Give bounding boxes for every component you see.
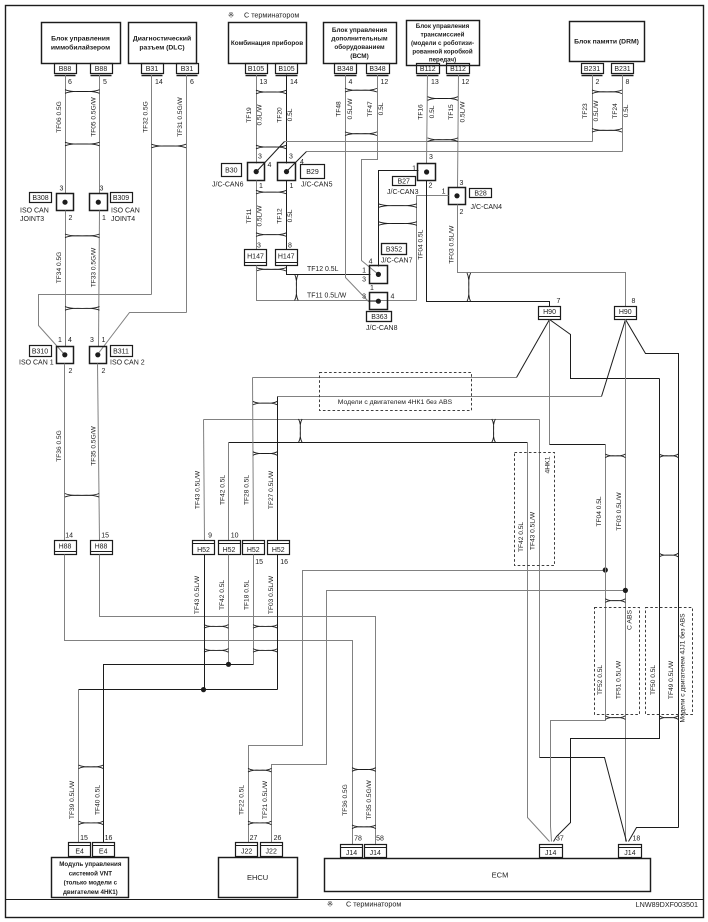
svg-text:37: 37 [556, 836, 564, 843]
svg-text:9: 9 [208, 533, 212, 540]
twist mark TF16/TF15 upper [428, 97, 459, 101]
twist mark TF36/TF35 [65, 494, 99, 498]
connector B231 pin8 [612, 64, 634, 74]
wire junction line y664 to E4 pin16 [104, 665, 254, 843]
svg-text:4: 4 [268, 162, 272, 169]
svg-text:※: ※ [228, 11, 234, 20]
svg-text:8: 8 [626, 79, 630, 86]
svg-text:16: 16 [280, 559, 288, 566]
svg-text:(только модели с: (только модели с [64, 880, 118, 887]
label box B363 [367, 312, 392, 322]
svg-text:12: 12 [381, 79, 389, 86]
twist mark TF39/TF40 lower [79, 821, 104, 825]
svg-text:TF11 0.5L/W: TF11 0.5L/W [307, 293, 347, 300]
svg-text:B308: B308 [32, 195, 48, 202]
connector J14 pin78 [341, 845, 363, 858]
wire TF34 0.5G [65, 211, 67, 347]
wire TF03 0.5L/W below H52 [277, 555, 279, 690]
connector H52 pin15 [243, 541, 265, 555]
svg-text:TF06 0.5G: TF06 0.5G [56, 101, 63, 133]
svg-text:0.5L: 0.5L [429, 105, 436, 118]
label box B308 [30, 193, 52, 203]
block: Комбинация приборов [229, 23, 307, 64]
svg-text:TF43 0.5L/W: TF43 0.5L/W [195, 470, 202, 509]
svg-text:3: 3 [257, 243, 261, 250]
svg-text:Блок управления: Блок управления [416, 23, 470, 30]
svg-text:3: 3 [289, 154, 293, 161]
wire TF43 0.5L/W below H52 [204, 555, 206, 690]
svg-text:1: 1 [290, 183, 294, 190]
wire TF04 0.5L upper [427, 181, 550, 307]
junction dot TF03 at y590 [623, 588, 628, 593]
wire TF27 bus line [278, 396, 602, 398]
svg-text:иммобилайзером: иммобилайзером [51, 44, 110, 52]
svg-text:TF16: TF16 [418, 104, 425, 120]
svg-text:27: 27 [250, 835, 258, 842]
wire H90-2 diagonal to TF27 line [602, 320, 626, 397]
wire DLC1 to ISO CAN1 joint [39, 295, 152, 355]
twist mark TF34/TF33 upper [65, 234, 100, 238]
svg-text:15: 15 [255, 559, 263, 566]
wire from H88 right to ECM J14 pin58 [100, 555, 376, 845]
twist mark TF23/TF24 lower [592, 129, 622, 133]
svg-text:7: 7 [557, 298, 561, 305]
svg-text:TF40 0.5L: TF40 0.5L [95, 785, 102, 815]
svg-text:(ВСМ): (ВСМ) [350, 53, 368, 60]
connector J14 pin37 [540, 845, 563, 858]
svg-text:1: 1 [442, 189, 446, 196]
svg-text:TF27 0.5L/W: TF27 0.5L/W [268, 470, 275, 509]
svg-text:0.5L/W: 0.5L/W [347, 98, 354, 120]
wire TF18 0.5L [253, 555, 255, 665]
svg-text:0.5L: 0.5L [287, 108, 294, 121]
connector B31 pin6 [177, 64, 199, 74]
joint B310 ISO CAN 1 [57, 347, 74, 364]
svg-text:B309: B309 [113, 195, 129, 202]
svg-text:TF12: TF12 [277, 208, 284, 224]
svg-text:H147: H147 [247, 254, 264, 261]
svg-text:B310: B310 [32, 348, 48, 355]
twist mark TF43/TF42 below upper [204, 625, 229, 629]
svg-text:4: 4 [68, 337, 72, 344]
svg-text:15: 15 [101, 533, 109, 540]
svg-text:TF05 0.5G/W: TF05 0.5G/W [91, 96, 98, 136]
svg-text:J/C-CAN3: J/C-CAN3 [387, 189, 419, 196]
wire TF28 bus line [253, 377, 517, 379]
twist mark TF43/TF42 bus right [492, 419, 496, 442]
svg-text:С терминатором: С терминатором [244, 11, 299, 20]
svg-text:С терминатором: С терминатором [346, 900, 401, 909]
svg-text:J14: J14 [545, 850, 556, 857]
svg-text:0.5L: 0.5L [623, 104, 630, 117]
wire B27 pin1 to B352 [379, 171, 419, 267]
svg-text:H90: H90 [619, 309, 632, 316]
svg-text:2: 2 [69, 215, 73, 222]
svg-text:H88: H88 [95, 544, 108, 551]
svg-text:2: 2 [69, 368, 73, 375]
svg-text:J/C-CAN4: J/C-CAN4 [471, 204, 503, 211]
svg-text:B88: B88 [95, 66, 108, 73]
svg-text:TF03 0.5L/W: TF03 0.5L/W [449, 225, 456, 264]
svg-text:3: 3 [362, 294, 366, 301]
connector H90 pin7 [539, 307, 561, 320]
wire TF39 0.5L/W vertical to E4 pin15 [78, 690, 80, 843]
svg-text:5: 5 [103, 79, 107, 86]
svg-text:2: 2 [102, 368, 106, 375]
wire TF43 0.5L/W drop vertical [539, 420, 541, 758]
svg-text:Блок памяти (DRM): Блок памяти (DRM) [574, 38, 639, 45]
connector B31 pin14 [142, 64, 164, 74]
svg-text:10: 10 [231, 533, 239, 540]
svg-text:TF42 0.5L: TF42 0.5L [220, 475, 227, 505]
connector B105 pin13 [246, 64, 268, 74]
twist mark TF43/TF42 below lower [204, 649, 229, 653]
svg-text:EHCU: EHCU [247, 873, 268, 882]
wire H90-1 diagonal to TF28 line [517, 320, 550, 378]
junction dot TF43 at y689 [201, 687, 206, 692]
joint B363 J/C-CAN8 [370, 293, 388, 310]
svg-text:4: 4 [349, 79, 353, 86]
svg-text:TF51 0.5L/W: TF51 0.5L/W [616, 660, 623, 699]
connector E4 pin15 [69, 843, 91, 857]
svg-text:H88: H88 [59, 544, 72, 551]
svg-text:Диагностический: Диагностический [133, 34, 191, 42]
label box B352 [382, 244, 407, 255]
svg-text:0.5L/W: 0.5L/W [257, 205, 264, 227]
connector B112 pin12 [447, 64, 470, 74]
svg-text:H52: H52 [247, 547, 260, 554]
wire TF06 0.5G [65, 75, 67, 194]
twist mark TF11/TF12 upper [256, 190, 287, 194]
wire TF11 0.5L/W lower [257, 266, 417, 301]
svg-text:ISO CAN 1: ISO CAN 1 [19, 360, 54, 367]
twist mark TF36/TF35 lower upper [352, 768, 376, 772]
wire H90-2 diagonal to TF49 [626, 320, 679, 828]
twist mark DLC pair [152, 144, 187, 148]
twist mark TF52/TF51 below box [605, 716, 625, 720]
joint B27 J/C-CAN3 [418, 164, 436, 181]
svg-text:двигателем 4НК1): двигателем 4НК1) [63, 889, 118, 896]
twist mark immobilizer pair lower [65, 142, 100, 146]
svg-text:J/C-CAN5: J/C-CAN5 [301, 182, 333, 189]
dashed box 4HK1 [515, 453, 555, 566]
twist mark TF50/TF49 mid [659, 553, 678, 557]
wire TF35 0.5G/W upper [98, 364, 100, 541]
twist mark TF04/TF03 lower mid [605, 599, 625, 603]
connector B88 pin5 [91, 64, 113, 74]
svg-text:4HK1: 4HK1 [545, 456, 552, 473]
svg-text:Блок управления: Блок управления [51, 35, 110, 42]
connector J14 pin58 [365, 845, 387, 858]
svg-text:TF22 0.5L: TF22 0.5L [239, 785, 246, 815]
svg-text:ISO CAN 2: ISO CAN 2 [110, 360, 145, 367]
svg-text:трансмиссией: трансмиссией [421, 32, 465, 39]
twist mark TF36/TF35 lower lower [352, 825, 376, 829]
svg-text:J14: J14 [346, 850, 357, 857]
junction dot TF04 at y570 [603, 567, 608, 572]
svg-text:3: 3 [258, 154, 262, 161]
label box B30 [222, 164, 242, 177]
wire H90-1 diagonal to TF50 line [550, 320, 660, 379]
svg-text:0.5L/W: 0.5L/W [593, 100, 600, 122]
joint B30 J/C-CAN6 [248, 163, 265, 181]
twist mark TF19/TF20 lower [256, 145, 287, 149]
svg-text:TF18 0.5L: TF18 0.5L [244, 580, 251, 610]
svg-text:B231: B231 [614, 66, 630, 73]
svg-text:B363: B363 [371, 314, 387, 321]
wire TF47 0.5L [362, 75, 379, 275]
wire from H88 left to ECM J14 pin78 [65, 555, 353, 845]
wire TF21 0.5L/W [272, 591, 626, 843]
svg-text:1: 1 [362, 268, 366, 275]
wire TF42 bus line [229, 442, 528, 444]
connector J22 pin27 [236, 843, 258, 857]
wire H90-1 drop [549, 320, 551, 445]
twist mark TF18/TF03 upper [253, 625, 278, 629]
connector H147 pin3 [245, 250, 267, 266]
connector E4 pin16 [93, 843, 115, 857]
dashed box Модели с двигателем 4HK1 без ABS [320, 373, 472, 411]
svg-text:78: 78 [354, 835, 362, 842]
svg-text:JOINT3: JOINT3 [20, 216, 44, 223]
svg-text:0.5L: 0.5L [378, 102, 385, 115]
svg-text:6: 6 [68, 79, 72, 86]
dashed box 4JJ1 [646, 608, 693, 715]
wire TF27 0.5L/W above H52 [277, 397, 279, 541]
wire TF04 0.5L lower / TF52 [551, 445, 606, 842]
twist mark TF04/TF03 horizontal pair [467, 273, 471, 302]
svg-text:J22: J22 [266, 848, 277, 855]
svg-text:системой VNT: системой VNT [69, 870, 112, 877]
wire TF31 0.5G/W [186, 75, 188, 313]
svg-text:12: 12 [462, 79, 470, 86]
svg-text:TF43 0.5L/W: TF43 0.5L/W [530, 511, 537, 550]
wire B28 pin1 to B363 [417, 196, 449, 301]
svg-text:Блок управления: Блок управления [332, 27, 387, 34]
svg-text:TF32 0.5G: TF32 0.5G [143, 101, 150, 133]
twist mark TF48/TF47 upper [345, 88, 377, 92]
svg-text:TF21 0.5L/W: TF21 0.5L/W [262, 780, 269, 819]
twist mark TF11/TF12 lower [256, 233, 287, 237]
svg-text:14: 14 [155, 79, 163, 86]
svg-text:J/C-CAN8: J/C-CAN8 [366, 325, 398, 332]
svg-text:8: 8 [288, 243, 292, 250]
connector H88 pin14 [55, 541, 77, 555]
svg-text:1: 1 [370, 285, 374, 292]
svg-text:3: 3 [90, 337, 94, 344]
svg-text:3: 3 [362, 277, 366, 284]
twist mark B27/B28 joint pair lower [378, 222, 417, 226]
label box B309 [111, 193, 133, 203]
svg-text:B348: B348 [369, 66, 385, 73]
svg-text:J/C-CAN6: J/C-CAN6 [212, 182, 244, 189]
svg-text:B311: B311 [113, 348, 129, 355]
connector B112 pin13 [417, 64, 440, 74]
twist mark TF43/TF42 bus left [299, 419, 303, 442]
wire TF49 to J14 pin18 [629, 828, 679, 842]
svg-text:TF36 0.5G: TF36 0.5G [56, 430, 63, 462]
svg-text:H52: H52 [223, 547, 236, 554]
svg-text:Модели с двигателем 4НК1 без А: Модели с двигателем 4НК1 без АВS [338, 398, 453, 406]
wire TF05 0.5G/W [99, 75, 101, 194]
twist mark TF34/TF33 lower [65, 307, 100, 311]
svg-text:14: 14 [65, 533, 73, 540]
svg-text:TF28 0.5L: TF28 0.5L [244, 475, 251, 505]
svg-text:1: 1 [102, 215, 106, 222]
wire TF42 0.5L above H52 [228, 443, 230, 541]
svg-text:B88: B88 [59, 66, 72, 73]
wire TF50 drop to J14 pin37 [554, 379, 660, 842]
svg-text:J14: J14 [624, 850, 635, 857]
wire TF22 0.5L [249, 571, 606, 843]
twist mark B27/B28 joint pair upper [378, 204, 417, 208]
svg-text:0.5L/W: 0.5L/W [257, 104, 264, 126]
block: ECM [325, 859, 651, 892]
svg-text:JOINT4: JOINT4 [111, 216, 135, 223]
svg-text:оборудованием: оборудованием [334, 43, 385, 51]
svg-text:TF33 0.5G/W: TF33 0.5G/W [91, 247, 98, 287]
svg-text:LNW89DXF003501: LNW89DXF003501 [636, 900, 698, 909]
svg-text:26: 26 [274, 835, 282, 842]
svg-text:2: 2 [596, 79, 600, 86]
label box B310 [30, 346, 52, 357]
svg-text:13: 13 [260, 79, 268, 86]
svg-text:TF34 0.5G: TF34 0.5G [56, 252, 63, 284]
svg-text:J/C-CAN7: J/C-CAN7 [381, 258, 413, 265]
wire TF11 0.5L/W [256, 181, 258, 250]
svg-text:C ABS: C ABS [627, 610, 634, 630]
svg-text:TF11: TF11 [246, 208, 253, 223]
svg-text:4: 4 [391, 294, 395, 301]
twist mark TF16/TF15 lower [428, 138, 459, 142]
twist mark TF23/TF24 upper [592, 90, 622, 94]
joint B352 J/C-CAN7 [370, 266, 388, 284]
wire TF12 0.5L [286, 181, 288, 250]
svg-text:B105: B105 [248, 66, 264, 73]
svg-text:ISO CAN: ISO CAN [111, 208, 140, 215]
wire junction line y689 [79, 689, 278, 691]
svg-text:B31: B31 [181, 66, 194, 73]
joint B311 ISO CAN 2 [90, 347, 107, 364]
svg-text:TF49 0.5L/W: TF49 0.5L/W [668, 660, 675, 699]
wire TF42 0.5L below H52 [228, 555, 230, 665]
connector H90 pin8 [615, 307, 637, 320]
twist mark TF18/TF03 lower [253, 649, 278, 653]
svg-text:разъем (DLC): разъем (DLC) [139, 45, 184, 52]
dashed box C ABS [595, 608, 640, 715]
twist mark immobilizer pair upper [65, 90, 100, 94]
label box B27 [393, 177, 416, 186]
svg-text:TF03 0.5L/W: TF03 0.5L/W [268, 575, 275, 614]
svg-text:B112: B112 [420, 66, 436, 73]
svg-text:※: ※ [327, 900, 333, 909]
svg-text:B31: B31 [146, 66, 159, 73]
svg-text:TF03 0.5L/W: TF03 0.5L/W [616, 492, 623, 531]
svg-text:H147: H147 [278, 254, 295, 261]
svg-text:дополнительным: дополнительным [331, 36, 387, 43]
block: Блок памяти (DRM) [570, 22, 645, 62]
twist mark TF50/TF49 upper [659, 454, 678, 458]
wire DRM CAN-H bus line [307, 151, 623, 153]
wire DLC2 to ISO CAN2 joint [98, 313, 187, 355]
svg-text:B352: B352 [386, 247, 402, 254]
svg-text:передач): передач) [429, 57, 456, 64]
block: Блок управления дополнительным оборудованием (BCM) [324, 23, 397, 64]
wire TF43 0.5L/W drop to J14 pin18 [540, 758, 627, 842]
svg-text:TF12 0.5L: TF12 0.5L [307, 266, 339, 273]
wire TF15 0.5L/W [458, 75, 459, 188]
svg-text:TF48: TF48 [336, 101, 343, 117]
connector H147 pin8 [276, 250, 298, 266]
svg-text:TF23: TF23 [582, 103, 589, 119]
connector H52 pin10 [219, 541, 241, 555]
svg-text:TF35 0.5G/W: TF35 0.5G/W [366, 779, 373, 819]
svg-text:ECM: ECM [492, 871, 509, 880]
svg-text:1: 1 [58, 337, 62, 344]
twist mark TF19/TF20 upper [256, 90, 287, 94]
svg-text:J14: J14 [370, 850, 381, 857]
svg-text:TF42 0.5L: TF42 0.5L [219, 580, 226, 610]
svg-text:J22: J22 [241, 848, 252, 855]
junction dot TF42 at y664 [226, 662, 231, 667]
svg-text:B348: B348 [337, 66, 353, 73]
svg-text:18: 18 [633, 836, 641, 843]
joint B309 ISO CAN JOINT4 [90, 194, 108, 211]
label box B28 [470, 189, 492, 198]
twist mark TF48/TF47 lower [345, 132, 377, 136]
svg-text:H90: H90 [543, 309, 556, 316]
twist mark TF28/TF27 upper [253, 401, 278, 405]
svg-text:TF04 0.5L: TF04 0.5L [596, 496, 603, 526]
svg-text:TF04 0.5L: TF04 0.5L [418, 229, 425, 259]
connector B348 pin4 [335, 64, 357, 74]
block: Блок управления иммобилайзером [42, 23, 121, 64]
joint B28 J/C-CAN4 [449, 188, 466, 205]
wire TF36 0.5G upper [64, 364, 66, 541]
label box B29 [301, 165, 325, 179]
block: EHCU [219, 858, 298, 898]
svg-text:Комбинация приборов: Комбинация приборов [231, 39, 303, 47]
svg-text:2: 2 [429, 183, 433, 190]
svg-text:TF36 0.5G: TF36 0.5G [342, 784, 349, 816]
wire TF28 0.5L above H52 [253, 378, 254, 541]
svg-text:TF42 0.5L: TF42 0.5L [518, 522, 525, 552]
svg-text:(модели с роботизи-: (модели с роботизи- [411, 40, 474, 47]
svg-text:B112: B112 [450, 66, 466, 73]
wire TF48 0.5L/W [346, 75, 379, 302]
svg-text:3: 3 [460, 180, 464, 187]
svg-text:TF50 0.5L: TF50 0.5L [650, 665, 657, 695]
svg-text:0.5L/W: 0.5L/W [460, 101, 467, 123]
svg-text:6: 6 [190, 79, 194, 86]
wire TF23 0.5L/W [592, 75, 594, 142]
connector J22 pin26 [261, 843, 283, 857]
svg-text:E4: E4 [75, 848, 84, 855]
connector B88 pin6 [55, 64, 77, 74]
label box B311 [111, 346, 133, 357]
wire TF43 0.5L/W above H52 [204, 420, 205, 541]
diagonal B29 pin4 to DRM line [287, 152, 307, 172]
svg-text:TF31 0.5G/W: TF31 0.5G/W [177, 96, 184, 136]
twist mark TF12/TF11 horizontal [295, 274, 299, 300]
wire TF24 0.5L [622, 75, 624, 152]
svg-text:H52: H52 [272, 547, 285, 554]
svg-text:ISO CAN: ISO CAN [20, 208, 49, 215]
twist mark TF50/TF49 below box [659, 716, 678, 720]
wire line y444 to TF04 lower [550, 444, 606, 446]
svg-text:8: 8 [632, 298, 636, 305]
svg-text:58: 58 [376, 835, 384, 842]
